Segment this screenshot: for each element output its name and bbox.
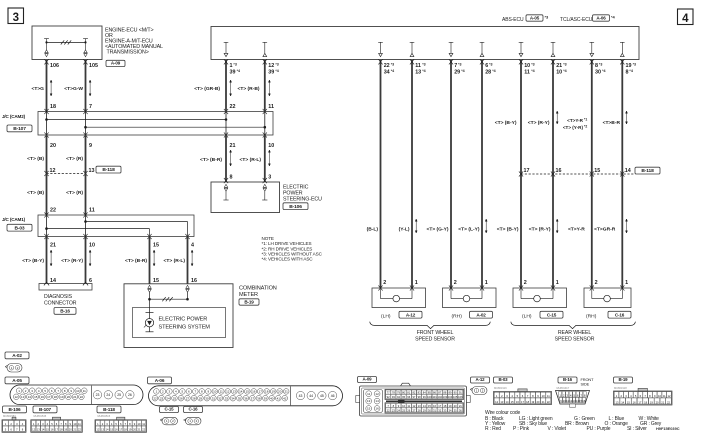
diagnosis connector box	[39, 284, 92, 291]
svg-text:11: 11	[220, 389, 223, 393]
svg-text:*3: *3	[233, 62, 236, 66]
svg-text:<T> (B-R): <T> (B-R)	[200, 157, 222, 163]
svg-text:19: 19	[60, 395, 64, 399]
svg-text:*4: *4	[391, 69, 394, 73]
svg-text:B-118: B-118	[102, 167, 115, 173]
svg-text:A-12: A-12	[476, 377, 486, 382]
svg-text:*3: *3	[422, 62, 425, 66]
junction X at CAM2 edge	[264, 112, 266, 136]
svg-text:19: 19	[128, 428, 131, 432]
ABS/TCL-ECU internal pin symbol 7	[590, 42, 595, 56]
svg-text:106: 106	[50, 63, 59, 69]
svg-text:SPEED SENSOR: SPEED SENSOR	[555, 336, 595, 342]
svg-text:11: 11	[415, 63, 421, 69]
svg-text:12: 12	[50, 168, 56, 174]
svg-text:35: 35	[454, 408, 457, 412]
svg-text:20: 20	[278, 389, 282, 393]
svg-text:81: 81	[407, 390, 410, 394]
svg-text:*4: *4	[492, 69, 495, 73]
svg-text:*3: *3	[599, 62, 602, 66]
svg-text:10: 10	[138, 422, 141, 426]
svg-text:10: 10	[542, 394, 545, 398]
svg-text:13: 13	[415, 70, 421, 76]
svg-text:29: 29	[423, 408, 426, 412]
twisted pair arrow	[626, 111, 628, 124]
svg-text:A-12: A-12	[406, 312, 416, 317]
svg-text:STEERING-ECU: STEERING-ECU	[283, 197, 322, 203]
svg-text:11: 11	[83, 389, 86, 393]
svg-text:19: 19	[64, 428, 67, 432]
svg-text:11: 11	[367, 392, 370, 396]
svg-text:21: 21	[138, 428, 141, 432]
svg-text:A-06: A-06	[596, 15, 606, 20]
svg-text:25: 25	[173, 396, 177, 400]
twisted pair arrow col1	[50, 80, 52, 96]
svg-text:14: 14	[239, 389, 243, 393]
connector label B-19	[239, 299, 259, 305]
svg-text:45: 45	[320, 394, 324, 398]
svg-text:<T>Y-R: <T>Y-R	[568, 227, 585, 233]
resistor R1 (CAN terminating) inside ENGINE-ECU	[47, 41, 86, 43]
svg-text:*3: *3	[391, 62, 394, 66]
svg-text:39: 39	[264, 396, 268, 400]
svg-text:18: 18	[50, 104, 56, 110]
svg-text:ABS-ECU: ABS-ECU	[502, 17, 524, 23]
svg-text:8: 8	[595, 63, 598, 69]
svg-text:*4: VEHICLES WITH ASC: *4: VEHICLES WITH ASC	[262, 257, 314, 262]
svg-text:41: 41	[277, 396, 281, 400]
svg-text:20: 20	[67, 395, 71, 399]
svg-text:STEERING SYSTEM: STEERING SYSTEM	[159, 324, 211, 330]
svg-text:15: 15	[594, 168, 600, 174]
svg-text:11: 11	[663, 394, 666, 398]
page tab 4	[678, 9, 694, 25]
svg-text:91: 91	[459, 390, 462, 394]
svg-text:43: 43	[299, 394, 303, 398]
junction X at CAM2 edge	[46, 112, 48, 136]
brace: front wheel speed sensor group	[370, 322, 491, 329]
wire: ABS/TCL-ECU col 2 down to wheel speed sensor	[411, 60, 413, 288]
svg-text:28: 28	[485, 70, 491, 76]
svg-text:C-15: C-15	[165, 407, 175, 412]
wire: CAM2 pin20 down to B-118 pin12	[46, 135, 48, 174]
svg-text:B-118: B-118	[641, 168, 654, 174]
svg-text:17: 17	[55, 428, 58, 432]
ENGINE-ECU internal stub pin 105	[83, 38, 88, 40]
junction X at CAM2 edge	[225, 112, 227, 136]
svg-text:DIAGNOSIS: DIAGNOSIS	[44, 294, 73, 300]
svg-text:SIDE: SIDE	[581, 382, 590, 387]
wire: ABS/TCL-ECU col 3 down to wheel speed sensor	[450, 60, 452, 288]
svg-text:B-16: B-16	[563, 377, 573, 382]
svg-text:12: 12	[268, 63, 274, 69]
svg-text:10: 10	[658, 394, 661, 398]
svg-text:11: 11	[524, 70, 530, 76]
svg-text:39: 39	[268, 70, 274, 76]
svg-text:9: 9	[89, 143, 92, 149]
svg-text:15: 15	[46, 428, 49, 432]
page tab 3	[8, 8, 24, 24]
svg-text:17: 17	[119, 428, 122, 432]
svg-text:18: 18	[443, 404, 446, 408]
svg-text:29: 29	[199, 396, 203, 400]
svg-text:34: 34	[449, 408, 452, 412]
svg-text:16: 16	[556, 168, 562, 174]
connector label B-118	[635, 167, 660, 174]
svg-text:MU801917: MU801917	[557, 386, 570, 390]
svg-text:A-09: A-09	[363, 377, 373, 382]
svg-text:12: 12	[32, 428, 35, 432]
wire: ABS/TCL-ECU col 8 down to wheel speed sensor	[621, 60, 623, 288]
twisted pair arrow	[556, 111, 558, 124]
svg-text:85: 85	[428, 390, 431, 394]
svg-text:MU801545: MU801545	[34, 414, 47, 418]
svg-text:12: 12	[668, 394, 671, 398]
svg-text:<T> (B-Y): <T> (B-Y)	[22, 258, 44, 264]
A-09 right pin grids	[385, 389, 464, 399]
svg-text:*4: *4	[629, 69, 632, 73]
svg-text:23: 23	[392, 408, 395, 412]
svg-text:<T>GR-R: <T>GR-R	[594, 227, 616, 233]
wire: CAM1 pin15 to combination meter pin15	[149, 237, 151, 284]
svg-text:21: 21	[556, 63, 562, 69]
svg-text:38: 38	[257, 396, 261, 400]
svg-text:FRONT WHEEL: FRONT WHEEL	[417, 330, 454, 336]
svg-text:<T> (R-L): <T> (R-L)	[240, 157, 262, 163]
connector pinout B-03	[494, 377, 513, 383]
svg-text:(LH): (LH)	[381, 314, 391, 320]
svg-text:COMBINATION: COMBINATION	[239, 285, 277, 291]
svg-text:B-19: B-19	[619, 377, 629, 382]
svg-text:*4: *4	[275, 69, 278, 73]
wire: CAM2 pin10 down to EPS-ECU pin3	[264, 135, 266, 182]
svg-text:<T>G-W: <T>G-W	[64, 86, 83, 92]
svg-text:25: 25	[117, 393, 121, 397]
svg-text:11: 11	[89, 208, 95, 214]
svg-text:82: 82	[412, 390, 415, 394]
svg-text:16: 16	[50, 428, 53, 432]
svg-text:B-03: B-03	[499, 377, 509, 382]
svg-text:<T> (R-Y): <T> (R-Y)	[529, 227, 551, 233]
svg-text:12: 12	[96, 428, 99, 432]
connector pinout C-16	[184, 407, 203, 413]
svg-text:10: 10	[76, 389, 80, 393]
connector pinout A-06	[148, 377, 172, 384]
svg-text:18: 18	[60, 428, 63, 432]
svg-text:22: 22	[547, 400, 550, 404]
svg-text:13: 13	[101, 428, 104, 432]
svg-text:PU : Purple: PU : Purple	[587, 426, 611, 432]
svg-text:106: 106	[458, 395, 463, 399]
svg-text:8: 8	[626, 70, 629, 76]
connector label C-16	[608, 311, 631, 318]
twisted pair arrow	[268, 150, 270, 166]
svg-text:<T> (R-B): <T> (R-B)	[237, 86, 259, 92]
wire: pin105 ENGINE-ECU down to J/C CAM2 pin7	[85, 60, 87, 112]
svg-text:22: 22	[230, 104, 236, 110]
svg-text:10: 10	[73, 422, 76, 426]
svg-text:12: 12	[375, 392, 379, 396]
connector label B-107	[7, 125, 32, 132]
svg-text:16: 16	[41, 395, 45, 399]
svg-text:17: 17	[638, 400, 641, 404]
svg-text:2: 2	[524, 280, 527, 286]
svg-text:7: 7	[89, 104, 92, 110]
svg-text:16: 16	[115, 428, 118, 432]
svg-text:21: 21	[459, 404, 462, 408]
svg-text:42: 42	[283, 396, 287, 400]
CAM2 bus L (CAN-L)	[86, 126, 265, 128]
connector label C-15	[540, 311, 563, 318]
svg-text:10: 10	[213, 389, 217, 393]
svg-text:16: 16	[582, 399, 585, 403]
svg-text:19: 19	[650, 400, 653, 404]
sensor coil symbol	[380, 288, 382, 299]
svg-text:15: 15	[627, 400, 630, 404]
svg-text:2: 2	[595, 280, 598, 286]
svg-text:20: 20	[133, 428, 136, 432]
ABS/TCL-ECU internal pin symbol 1	[378, 42, 383, 56]
svg-text:80: 80	[402, 390, 405, 394]
twisted pair arrow	[153, 250, 155, 266]
svg-text:19: 19	[531, 400, 534, 404]
svg-text:10: 10	[89, 243, 95, 249]
resistor R2 in combination meter	[150, 298, 188, 300]
svg-text:1: 1	[556, 280, 559, 286]
svg-text:B-19: B-19	[244, 299, 254, 304]
svg-text:MU804515: MU804515	[98, 414, 111, 418]
svg-text:22: 22	[78, 428, 81, 432]
junction X at CAM2 edge	[85, 112, 87, 136]
twisted pair arrows lower right	[415, 219, 417, 233]
svg-text:P : Pink: P : Pink	[513, 426, 530, 432]
svg-text:21: 21	[230, 143, 236, 149]
svg-text:26: 26	[407, 408, 410, 412]
svg-text:14: 14	[506, 400, 509, 404]
wires through CAM1 + junction X marks	[46, 215, 48, 237]
sensor coil symbol	[520, 288, 522, 299]
twisted pair arrow	[89, 250, 91, 266]
svg-text:A-02: A-02	[476, 312, 486, 317]
CAM1 bus lower: col1 to pin15	[47, 228, 150, 230]
svg-text:3: 3	[13, 12, 19, 24]
svg-text:44: 44	[309, 394, 313, 398]
connector pinout B-16 (front side)	[558, 377, 577, 383]
svg-text:16: 16	[252, 389, 256, 393]
svg-text:<T>Y-R: <T>Y-R	[567, 118, 584, 123]
svg-text:93: 93	[392, 395, 395, 399]
twisted pair arrow	[230, 150, 232, 166]
svg-text:25: 25	[402, 408, 405, 412]
ABS/TCL-ECU internal pin symbol col4	[263, 42, 268, 56]
svg-text:*3: *3	[633, 62, 636, 66]
brace: rear wheel speed sensor group	[511, 322, 636, 329]
svg-text:*4: *4	[237, 69, 240, 73]
svg-text:21: 21	[285, 389, 289, 393]
svg-text:16: 16	[433, 404, 436, 408]
svg-text:<T> (GR-B): <T> (GR-B)	[194, 86, 220, 92]
svg-text:12: 12	[495, 400, 498, 404]
ABS/TCL-ECU internal pin symbol 5	[519, 42, 524, 56]
svg-text:30: 30	[205, 396, 209, 400]
svg-text:27: 27	[186, 396, 190, 400]
svg-text:33: 33	[225, 396, 229, 400]
svg-text:20: 20	[69, 428, 72, 432]
svg-text:1: 1	[625, 280, 628, 286]
svg-text:23: 23	[96, 393, 100, 397]
junction block J/C (CAM2) B-107	[38, 112, 273, 136]
svg-text:*3: *3	[531, 62, 534, 66]
svg-text:39: 39	[230, 70, 236, 76]
svg-text:15: 15	[428, 404, 431, 408]
svg-text:(RH): (RH)	[586, 314, 597, 320]
svg-text:16: 16	[516, 400, 519, 404]
svg-text:13: 13	[89, 168, 95, 174]
ABS/TCL-ECU internal pin symbol 3	[449, 42, 454, 56]
svg-text:84: 84	[423, 390, 426, 394]
connector pinout A-05	[5, 377, 29, 384]
svg-text:TCL/ASC-ECU: TCL/ASC-ECU	[560, 17, 593, 23]
wire: ABS pin1/39 down to CAM2 pin22	[225, 60, 227, 112]
sensor coil symbol	[591, 288, 593, 299]
svg-text:18: 18	[124, 428, 127, 432]
svg-text:13: 13	[418, 404, 421, 408]
svg-text:83: 83	[418, 390, 421, 394]
svg-text:96: 96	[407, 395, 410, 399]
svg-text:18: 18	[54, 395, 58, 399]
connector label A-09	[106, 60, 125, 66]
svg-text:<T> (R-Y): <T> (R-Y)	[61, 258, 83, 264]
svg-text:*4: *4	[422, 69, 425, 73]
meter pin symbol 16	[186, 285, 189, 292]
svg-text:13: 13	[615, 400, 618, 404]
svg-text:86: 86	[433, 390, 436, 394]
svg-text:40: 40	[270, 396, 274, 400]
svg-text:*2: *2	[584, 125, 587, 129]
CAM2 bus H (CAN-H)	[47, 119, 227, 121]
svg-text:(RH): (RH)	[452, 314, 463, 320]
svg-text:17: 17	[524, 168, 530, 174]
svg-text:J/C (CAM2): J/C (CAM2)	[2, 114, 26, 119]
svg-text:77: 77	[387, 390, 390, 394]
svg-text:4: 4	[682, 13, 689, 25]
svg-text:27: 27	[412, 408, 415, 412]
twisted pair arrow col2	[89, 80, 91, 96]
svg-text:<T> (R-Y): <T> (R-Y)	[528, 120, 550, 126]
twisted pair arrow	[268, 80, 270, 96]
svg-text:22: 22	[153, 396, 157, 400]
svg-text:14: 14	[375, 399, 379, 403]
wire: ABS/TCL-ECU col 5 down to wheel speed sensor	[520, 60, 522, 288]
svg-text:35: 35	[238, 396, 242, 400]
svg-text:B-03: B-03	[14, 225, 24, 231]
svg-text:H9F15E039C: H9F15E039C	[656, 426, 680, 431]
svg-text:26: 26	[179, 396, 183, 400]
svg-text:16: 16	[191, 278, 197, 284]
svg-text:6: 6	[485, 63, 488, 69]
twisted pair arrow	[191, 250, 193, 266]
svg-text:B-106: B-106	[289, 204, 302, 210]
wire to EPS warning lamp	[149, 299, 151, 318]
svg-text:12: 12	[15, 395, 19, 399]
svg-text:16: 16	[375, 407, 379, 411]
svg-text:97: 97	[412, 395, 415, 399]
wire: CAM1 pin4 to combination meter pin16	[187, 237, 189, 284]
svg-text:1: 1	[485, 280, 488, 286]
svg-text:MU801916: MU801916	[494, 386, 507, 390]
junction block J/C (CAM1) B-03	[38, 215, 194, 237]
svg-text:24: 24	[397, 408, 400, 412]
svg-text:20: 20	[454, 404, 457, 408]
svg-text:18: 18	[526, 400, 529, 404]
svg-text:*1: *1	[584, 118, 587, 122]
svg-text:34: 34	[231, 396, 235, 400]
svg-text:19: 19	[272, 389, 276, 393]
svg-text:*3: *3	[275, 62, 278, 66]
svg-text:28: 28	[418, 408, 421, 412]
svg-text:B-118: B-118	[103, 407, 115, 412]
svg-text:2: 2	[454, 280, 457, 286]
svg-text:17: 17	[521, 400, 524, 404]
svg-text:*4: *4	[602, 69, 605, 73]
svg-text:15: 15	[34, 395, 38, 399]
svg-text:C-16: C-16	[189, 407, 199, 412]
wire: ABS pin12/39 down to CAM2 pin11	[264, 60, 266, 112]
svg-text:98: 98	[418, 395, 421, 399]
twisted pair arrow	[230, 80, 232, 96]
connector pinout A-09	[358, 377, 377, 383]
svg-text:24: 24	[166, 396, 170, 400]
svg-text:15: 15	[367, 407, 371, 411]
wire: B-118 pin12 down to J/C CAM1 pin22	[46, 174, 48, 216]
svg-text:13: 13	[21, 395, 25, 399]
CAM1 bus upper: col2 to pin4	[86, 221, 188, 223]
wire: CAM1 pin21 to diagnosis connector pin14	[46, 237, 48, 284]
svg-text:33: 33	[443, 408, 446, 412]
svg-text:17: 17	[438, 404, 441, 408]
svg-text:*3: *3	[458, 62, 461, 66]
svg-text:24: 24	[106, 393, 110, 397]
svg-text:<T> (L-Y): <T> (L-Y)	[458, 227, 480, 233]
wire: ABS/TCL-ECU col 6 down to wheel speed sensor	[552, 60, 554, 288]
svg-text:15: 15	[153, 243, 159, 249]
svg-text:R : Red: R : Red	[485, 426, 501, 432]
svg-text:(LH): (LH)	[522, 314, 532, 320]
svg-text:13: 13	[233, 389, 237, 393]
connector pinout B-106	[3, 406, 27, 413]
wire: B-118 pin13 down to J/C CAM1 pin11	[85, 174, 87, 216]
wire: pin106 ENGINE-ECU down to J/C CAM2 pin18	[46, 60, 48, 112]
svg-text:10: 10	[556, 70, 562, 76]
svg-text:21: 21	[73, 395, 77, 399]
svg-text:17: 17	[47, 395, 51, 399]
svg-text:A-05: A-05	[530, 15, 540, 20]
inner box: electric power steering system	[133, 308, 226, 338]
svg-text:<T>B-R: <T>B-R	[603, 120, 621, 126]
svg-text:17: 17	[259, 389, 263, 393]
ABS/TCL-ECU internal pin symbol 6	[551, 42, 556, 56]
svg-text:B-16: B-16	[60, 309, 70, 314]
svg-text:REAR WHEEL: REAR WHEEL	[558, 330, 592, 336]
svg-text:10: 10	[524, 63, 530, 69]
svg-text:<T> (B-R): <T> (B-R)	[125, 258, 147, 264]
wire: CAM1 pin10 to diagnosis connector pin6	[85, 237, 87, 284]
svg-text:<T> (R): <T> (R)	[66, 156, 83, 162]
svg-text:<T> (R-L): <T> (R-L)	[164, 258, 186, 264]
svg-text:15: 15	[511, 400, 514, 404]
svg-text:8: 8	[230, 175, 233, 181]
svg-text:<T> (R): <T> (R)	[66, 190, 83, 196]
